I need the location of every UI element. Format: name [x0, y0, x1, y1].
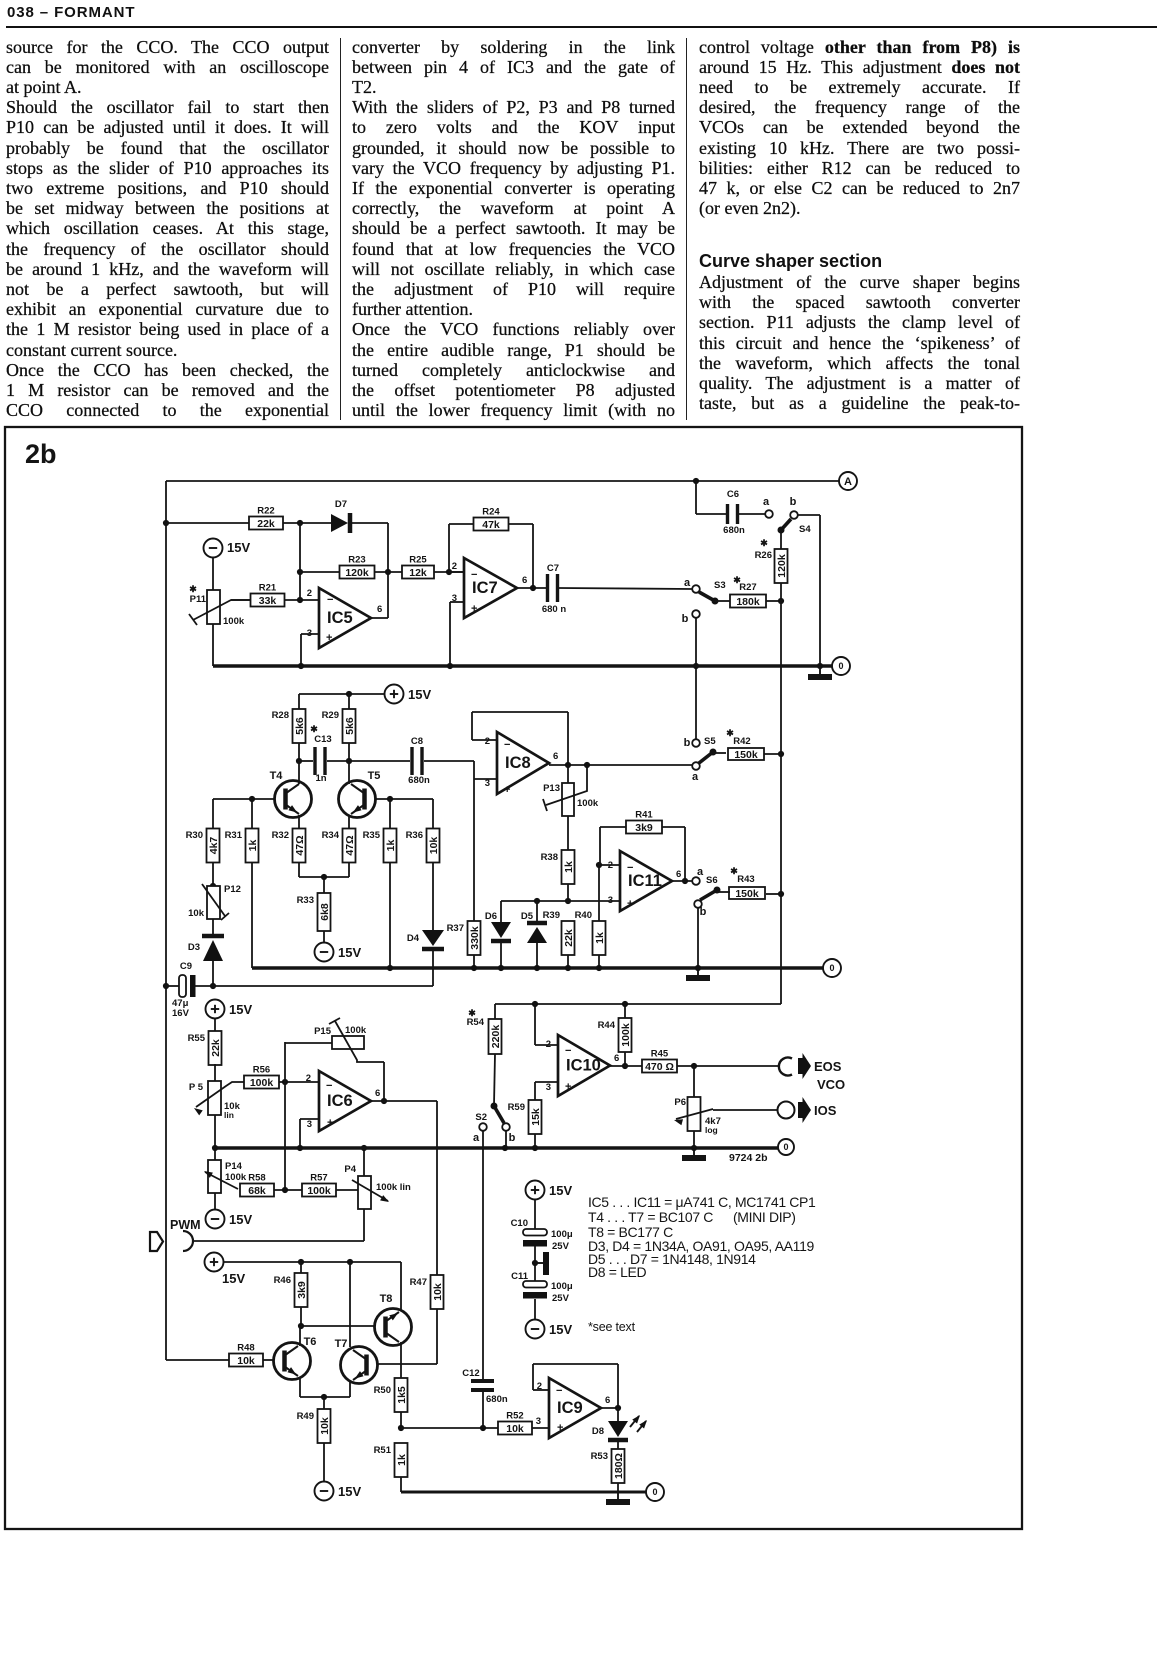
wire: S3 to R27 [715, 600, 730, 602]
svg-text:1k: 1k [396, 1454, 408, 1466]
wire: P14 to -15V [214, 1193, 216, 1209]
svg-text:C9: C9 [180, 961, 192, 972]
svg-text:220k: 220k [490, 1025, 502, 1049]
wire: R45 to EOS [677, 1063, 778, 1069]
svg-text:P 5: P 5 [189, 1082, 204, 1093]
svg-text:EOS: EOS [814, 1059, 842, 1074]
svg-text:R58: R58 [248, 1173, 265, 1184]
svg-text:b: b [684, 737, 691, 749]
svg-text:✱: ✱ [730, 866, 738, 876]
wire: R26 to R27 node [780, 583, 782, 601]
resistor R26 (vertical) [755, 538, 788, 583]
wire: S5 to R42 [713, 752, 726, 754]
svg-text:P13: P13 [543, 783, 560, 794]
wire: D3 to C9 node [210, 961, 216, 989]
power +15V (R55) [206, 1000, 253, 1019]
node 0 terminal (IC10) [778, 1139, 794, 1155]
wire: IC7 pin2 row [449, 571, 464, 573]
svg-text:b: b [509, 1132, 516, 1144]
op-amp IC11 [608, 851, 682, 911]
svg-text:+: + [627, 898, 633, 910]
svg-text:log: log [705, 1125, 718, 1135]
svg-text:*see text: *see text [588, 1320, 636, 1334]
svg-text:−: − [326, 1080, 332, 1092]
wire: P6 wiper to IOS [713, 1109, 778, 1111]
resistor R23 [340, 555, 375, 579]
svg-text:180Ω: 180Ω [613, 1453, 625, 1479]
capacitor C7 [542, 563, 566, 615]
wire: C13 leads [299, 760, 349, 762]
svg-text:1k: 1k [594, 932, 606, 944]
svg-text:R35: R35 [363, 830, 381, 841]
switch S2 [473, 1103, 516, 1145]
svg-text:15V: 15V [338, 1484, 361, 1499]
resistor R29 (vertical) [322, 709, 356, 743]
svg-text:−: − [565, 1045, 571, 1057]
wire: R55 to P5 [214, 1064, 216, 1081]
power -15V (R49) [315, 1482, 362, 1501]
wire: IC6 output to R47 [371, 1101, 437, 1275]
svg-text:47Ω: 47Ω [294, 835, 306, 855]
svg-text:a: a [473, 1132, 480, 1144]
svg-text:6: 6 [377, 604, 382, 615]
wire: S6 b to ground [697, 908, 699, 968]
wire: R59 to rail [534, 1134, 536, 1148]
transistor T4 [270, 770, 312, 818]
svg-text:S2: S2 [475, 1112, 487, 1123]
wire: R38 to pin3 node [565, 884, 571, 904]
svg-text:−: − [627, 862, 633, 874]
svg-text:4k7: 4k7 [208, 837, 220, 855]
wire: T5 emitter [348, 815, 350, 829]
wire: riser x285 [284, 1042, 286, 1190]
svg-text:R56: R56 [253, 1065, 270, 1076]
svg-text:100k: 100k [620, 1023, 632, 1047]
svg-text:0: 0 [829, 963, 834, 973]
svg-text:R41: R41 [635, 810, 653, 821]
wire: R23/R25 row [300, 569, 464, 575]
svg-text:15V: 15V [227, 540, 250, 555]
resistor R36 (vertical) [406, 829, 440, 863]
svg-text:R31: R31 [225, 830, 243, 841]
resistor R33 (vertical) [297, 893, 331, 931]
svg-text:47Ω: 47Ω [344, 835, 356, 855]
wire: T8 base row [301, 1325, 375, 1327]
wire: C12 to node [482, 1392, 484, 1428]
svg-text:2: 2 [485, 736, 490, 747]
resistor R43 [729, 866, 765, 900]
potentiometer P12 [188, 862, 241, 920]
connector EOS arrow [798, 1053, 842, 1079]
node 0 terminal (middle) [823, 959, 841, 977]
svg-text:D8: D8 [592, 1426, 604, 1437]
svg-text:R59: R59 [508, 1102, 525, 1113]
transistor T8 [375, 1293, 412, 1346]
svg-text:T4: T4 [270, 770, 284, 782]
wire: IC11 pin2 [599, 864, 620, 866]
svg-text:2: 2 [306, 1073, 311, 1084]
svg-text:IC9: IC9 [557, 1399, 583, 1417]
svg-text:100k: 100k [223, 616, 245, 627]
svg-text:R55: R55 [188, 1033, 206, 1044]
op-amp IC6 [306, 1071, 381, 1131]
potentiometer P14 [202, 1148, 246, 1193]
wire: R26 to S4 [780, 531, 782, 549]
resistor R52 [498, 1411, 532, 1435]
power -15V (legend) [526, 1320, 573, 1339]
wire: IC5 pin3 to rail [301, 634, 319, 666]
connector PWM arrow [150, 1232, 163, 1251]
wire: D7 to feedback corner [352, 522, 388, 524]
wire: R52 to IC9 pin3 [532, 1427, 549, 1429]
wire: IC9 feedback loop [533, 1364, 618, 1408]
wire: P5 to rail [214, 1115, 216, 1148]
wire: T5 base row [376, 796, 433, 829]
svg-text:25V: 25V [552, 1241, 570, 1252]
wire: P4 bottom to PWM [192, 1209, 364, 1241]
wire: C8 to IC8 pin3 [474, 761, 497, 779]
svg-text:R22: R22 [257, 506, 274, 517]
power +15V (legend) [526, 1181, 573, 1200]
svg-text:68k: 68k [248, 1185, 266, 1197]
svg-text:100μ: 100μ [551, 1229, 573, 1240]
resistor R49 (vertical) [297, 1409, 331, 1443]
wire: P12 to D3 [212, 919, 214, 934]
svg-text:R25: R25 [409, 555, 427, 566]
svg-text:25V: 25V [552, 1293, 570, 1304]
svg-text:S6: S6 [706, 875, 718, 886]
svg-text:−: − [327, 594, 333, 606]
svg-text:P6: P6 [674, 1097, 686, 1108]
svg-text:R42: R42 [733, 736, 750, 747]
svg-text:S3: S3 [714, 580, 726, 591]
svg-text:680n: 680n [408, 775, 430, 786]
svg-text:2: 2 [452, 561, 457, 572]
connector PWM input [170, 1218, 201, 1251]
svg-text:100k: 100k [225, 1172, 247, 1183]
wire: R31 to 0V rail [251, 862, 253, 968]
svg-text:IC6: IC6 [327, 1092, 353, 1110]
transistor T6 [274, 1336, 317, 1380]
wire: P6 bottom to rail [693, 1131, 695, 1148]
wire: T5 collector [348, 761, 350, 784]
wire: R44 leads [622, 1004, 628, 1069]
wire: T6 collector [299, 1326, 301, 1346]
svg-text:1n: 1n [315, 773, 326, 784]
capacitor C12 [462, 1368, 508, 1405]
wire: IC5 output [371, 617, 388, 619]
svg-text:680n: 680n [723, 525, 745, 536]
capacitor C6 [696, 481, 765, 536]
svg-text:33k: 33k [259, 595, 277, 607]
switch S4 contact a [763, 496, 773, 518]
wire: T4 collector [298, 761, 300, 784]
svg-text:150k: 150k [735, 888, 759, 900]
svg-text:6: 6 [553, 751, 558, 762]
svg-text:R30: R30 [186, 830, 203, 841]
svg-text:3k9: 3k9 [635, 822, 653, 834]
node 0 terminal (top) [832, 657, 850, 675]
svg-text:VCO: VCO [817, 1077, 845, 1092]
wire: IC9 output [601, 1405, 621, 1411]
resistor R46 (vertical) [274, 1273, 308, 1307]
resistor R34 (vertical) [322, 829, 356, 863]
wire: IC10 pin2 riser [535, 1004, 558, 1045]
svg-text:15V: 15V [338, 945, 361, 960]
wire: R35 top [389, 799, 391, 829]
svg-text:D5: D5 [521, 911, 534, 922]
svg-text:2b: 2b [25, 439, 57, 469]
svg-text:15V: 15V [229, 1002, 252, 1017]
svg-text:680n: 680n [486, 1394, 508, 1405]
potentiometer P5 [189, 1081, 244, 1120]
svg-text:1k: 1k [563, 861, 575, 873]
wire: T4 emitter [298, 815, 300, 829]
wire: S2 b to rail [505, 1131, 507, 1148]
resistor R40 (vertical) [575, 910, 606, 955]
svg-text:9724 2b: 9724 2b [729, 1152, 768, 1164]
svg-text:6: 6 [375, 1088, 380, 1099]
svg-text:12k: 12k [409, 567, 427, 579]
svg-text:R45: R45 [651, 1049, 669, 1060]
resistor R59 (vertical) [508, 1100, 542, 1134]
resistor R22 [249, 506, 283, 530]
wire: 0V rail (middle) [252, 965, 823, 971]
wire: D4 to C9 row [432, 951, 434, 986]
wire: R35 to 0V rail [389, 862, 391, 968]
switch S6 [692, 866, 720, 918]
ground (R53) [606, 1492, 630, 1502]
wire: R29 to C13 node [346, 743, 352, 764]
wire: R46 leads [298, 1262, 304, 1329]
ground (legend) [535, 1252, 549, 1275]
wire: R37 riser [473, 779, 475, 921]
svg-text:10k: 10k [319, 1417, 331, 1435]
capacitor C8 [349, 736, 474, 786]
svg-text:C8: C8 [411, 736, 423, 747]
wire: T7 collector [349, 1262, 351, 1347]
svg-text:A: A [844, 476, 852, 488]
svg-text:T5: T5 [368, 770, 381, 782]
wire: IC8 feedback loop [472, 712, 568, 764]
svg-text:T4 . . . T7 = BC107 C: T4 . . . T7 = BC107 C [588, 1209, 713, 1225]
svg-text:10k: 10k [506, 1423, 524, 1435]
power +15V (T4/T5) [385, 685, 432, 704]
connector EOS jack [779, 1058, 792, 1076]
svg-text:100k: 100k [577, 798, 599, 809]
wire: P13 to R38 [567, 816, 569, 850]
wire: T4 base row [213, 796, 274, 829]
wire: P15 to IC6 output [381, 1062, 387, 1104]
svg-text:D3: D3 [188, 942, 200, 953]
wire: R54 top [494, 1004, 496, 1019]
svg-text:R50: R50 [374, 1385, 391, 1396]
svg-text:P4: P4 [344, 1164, 356, 1175]
svg-text:R54: R54 [467, 1017, 485, 1028]
wire: -15V to P11 [212, 557, 214, 590]
svg-text:150k: 150k [734, 749, 758, 761]
svg-text:IC10: IC10 [566, 1057, 601, 1075]
svg-text:R48: R48 [237, 1343, 254, 1354]
op-amp IC7 [452, 558, 528, 618]
op-amp IC8 [485, 732, 559, 796]
svg-text:6: 6 [605, 1395, 610, 1406]
potentiometer P13 [543, 762, 599, 816]
svg-text:−: − [471, 569, 477, 581]
wire: R36 to D4 [432, 862, 434, 930]
resistor R35 (vertical) [363, 829, 397, 863]
svg-text:P12: P12 [224, 884, 241, 895]
wire: +15V to R55 [214, 1019, 216, 1031]
svg-text:R26: R26 [755, 550, 772, 561]
resistor R44 (vertical) [598, 1018, 632, 1052]
svg-text:R21: R21 [259, 583, 277, 594]
svg-text:✱: ✱ [468, 1008, 476, 1018]
wire: R27 to bus [766, 598, 784, 604]
svg-text:IC5 . . . IC11 = μA741 C, MC17: IC5 . . . IC11 = μA741 C, MC1741 CP1 [588, 1194, 816, 1210]
wire: bus corner to R54/IC10 [495, 1001, 781, 1007]
svg-text:180k: 180k [736, 596, 760, 608]
svg-text:b: b [790, 496, 797, 508]
wire: emitters to R49 [300, 1377, 350, 1409]
wire: R43 to bus [766, 893, 781, 895]
connector IOS jack [778, 1102, 795, 1119]
power -15V (P11) [204, 539, 251, 558]
svg-text:330k: 330k [469, 926, 481, 950]
svg-text:R57: R57 [310, 1173, 327, 1184]
resistor R58 [240, 1173, 274, 1197]
diode D3 [188, 936, 224, 961]
svg-text:3k9: 3k9 [296, 1281, 308, 1299]
capacitor C13 [310, 724, 331, 784]
wire: C11 to -15V [534, 1299, 536, 1319]
resistor R55 (vertical) [188, 1031, 222, 1065]
power -15V (R33) [315, 943, 362, 962]
svg-text:1k: 1k [385, 840, 397, 852]
switch S4 [778, 496, 812, 535]
wire: C7 to S3 [559, 588, 692, 589]
wire: T7 base to R47 [378, 1363, 437, 1365]
svg-text:(MINI DIP): (MINI DIP) [733, 1209, 796, 1225]
svg-text:R46: R46 [274, 1275, 291, 1286]
wire: R58 to R57 [274, 1187, 302, 1193]
wire: R21 to IC5 pin2 [284, 597, 319, 603]
svg-text:10k: 10k [432, 1283, 444, 1301]
resistor R37 (vertical) [447, 921, 481, 955]
wire: 0V rail (top) [213, 663, 832, 669]
diode D4 [407, 930, 444, 949]
svg-text:C12: C12 [462, 1368, 479, 1379]
switch S3 [682, 577, 726, 625]
wire: P11 to rail [212, 624, 214, 666]
svg-text:0: 0 [783, 1142, 788, 1152]
svg-text:D8 = LED: D8 = LED [588, 1264, 647, 1280]
svg-text:R29: R29 [322, 710, 339, 721]
resistor R48 [229, 1343, 263, 1367]
wire: S6 to R43 [717, 891, 730, 893]
power -15V (P14) [206, 1210, 253, 1229]
wire: P4 top to rail [361, 1145, 367, 1176]
svg-text:3: 3 [536, 1416, 541, 1427]
svg-text:C13: C13 [314, 734, 331, 745]
svg-text:PWM: PWM [170, 1218, 201, 1232]
svg-text:6k8: 6k8 [319, 903, 331, 921]
svg-text:680 n: 680 n [542, 604, 566, 615]
svg-text:T8: T8 [380, 1293, 393, 1305]
wire: IC11 output [672, 880, 692, 882]
wire: R39 to rail [567, 955, 569, 968]
wire: IC8 output to S5 [549, 762, 692, 768]
wire: R54 to S2 [494, 1054, 495, 1105]
svg-text:22k: 22k [210, 1039, 222, 1057]
svg-text:R43: R43 [737, 874, 754, 885]
wire: R48 to T6 base [263, 1359, 274, 1361]
potentiometer P15 [285, 1018, 384, 1062]
svg-text:IC8: IC8 [505, 754, 531, 772]
svg-text:a: a [692, 771, 699, 783]
svg-text:10k: 10k [237, 1355, 255, 1367]
svg-text:C6: C6 [727, 489, 739, 500]
svg-text:S4: S4 [799, 524, 811, 535]
switch S5 [684, 736, 717, 783]
wire: +15V supply to R28/R29 [299, 691, 384, 709]
wire: S4 b to ground [798, 515, 820, 666]
svg-text:R40: R40 [575, 910, 592, 921]
resistor R27 [730, 575, 766, 608]
svg-text:100μ: 100μ [551, 1281, 573, 1292]
svg-text:R34: R34 [322, 830, 340, 841]
svg-text:C10: C10 [511, 1218, 528, 1229]
svg-text:lin: lin [224, 1110, 234, 1120]
wire: bottom 0V rail [401, 1491, 646, 1494]
wire: IC10 pin3 [535, 1082, 558, 1100]
label 9724 2b [729, 1152, 768, 1164]
diode D7 [331, 499, 350, 533]
svg-text:R49: R49 [297, 1411, 314, 1422]
svg-text:S5: S5 [704, 736, 716, 747]
wire: R37 to 0V rail [473, 955, 475, 968]
svg-text:R27: R27 [739, 582, 756, 593]
svg-text:15V: 15V [549, 1183, 572, 1198]
svg-text:22k: 22k [563, 929, 575, 947]
wire: feedback vertical x388 [385, 523, 391, 618]
wire: R57 to P4 [336, 1189, 358, 1191]
wire: R42 to bus [764, 753, 781, 755]
svg-text:−: − [556, 1385, 562, 1397]
potentiometer P4 [344, 1164, 411, 1209]
svg-text:✱: ✱ [760, 538, 768, 548]
svg-text:IOS: IOS [814, 1103, 837, 1118]
capacitor C11 (electrolytic) [511, 1271, 573, 1304]
svg-text:a: a [697, 866, 704, 878]
label VCO [817, 1077, 845, 1092]
resistor R45 [642, 1049, 677, 1073]
wire: S3 b to ground rail and S5 b [693, 618, 699, 739]
svg-text:T7: T7 [335, 1338, 348, 1350]
svg-text:+: + [565, 1081, 571, 1093]
legend text [588, 1194, 816, 1334]
svg-text:120k: 120k [776, 554, 788, 578]
transistor T7 [335, 1338, 378, 1384]
op-amp IC9 [536, 1378, 611, 1438]
ground (S6) [686, 968, 710, 978]
svg-text:a: a [684, 577, 691, 589]
LED D8 [592, 1408, 650, 1440]
potentiometer P11 [189, 584, 251, 627]
wire: R56 to IC6 pin2 [279, 1079, 319, 1085]
wire: IC6 pin3 to rail [300, 1119, 319, 1148]
wire: +15V to C10 [534, 1200, 536, 1229]
